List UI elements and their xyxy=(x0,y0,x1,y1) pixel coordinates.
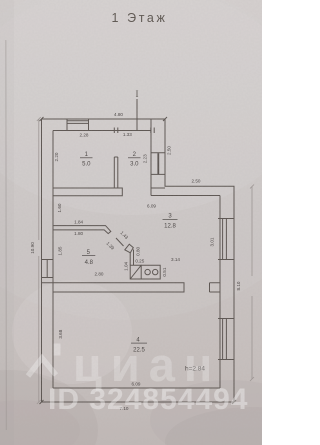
inner wall top xyxy=(53,130,151,132)
inner wall right xyxy=(219,196,221,389)
inner wall left xyxy=(52,131,54,389)
inner wall bottom xyxy=(53,387,220,389)
dimension and room labels xyxy=(30,112,241,411)
stove xyxy=(130,265,141,279)
door leaf xyxy=(116,238,124,246)
fraction lines under room numbers xyxy=(80,158,178,343)
faint dimension line right 8.10 xyxy=(251,187,253,380)
wall between rooms 5-3 and room 4 xyxy=(42,283,185,292)
window W5 left wall xyxy=(42,260,54,278)
inner wall room2 right xyxy=(150,120,152,189)
window W3 right wall upper xyxy=(218,219,234,260)
flue duct bend xyxy=(125,244,134,253)
watermark cian logo house xyxy=(28,344,61,377)
dimension ticks bottom xyxy=(40,400,237,404)
partition in room 5 xyxy=(53,226,111,234)
interior wall between room1 and room2 xyxy=(114,157,118,188)
window W4 right wall lower xyxy=(218,319,234,360)
photo left page edge shading xyxy=(5,40,8,430)
pilaster on right wall xyxy=(210,283,221,292)
dimension ticks top xyxy=(40,117,168,121)
cooker with burners xyxy=(141,265,160,279)
flue duct vertical xyxy=(130,250,133,266)
wall tick at top of divider xyxy=(114,128,154,134)
outer wall boundary xyxy=(42,119,235,402)
bottom wall of rooms 1-2 right segment and step inner xyxy=(151,188,165,196)
window W1 top wall xyxy=(67,119,89,131)
bottom wall of rooms 1-2 left segment xyxy=(53,188,122,196)
section line I xyxy=(136,99,138,130)
inner wall step xyxy=(151,195,220,197)
window W2 room2 right wall xyxy=(151,153,165,175)
faint dimension line left 10.90 xyxy=(37,117,254,404)
